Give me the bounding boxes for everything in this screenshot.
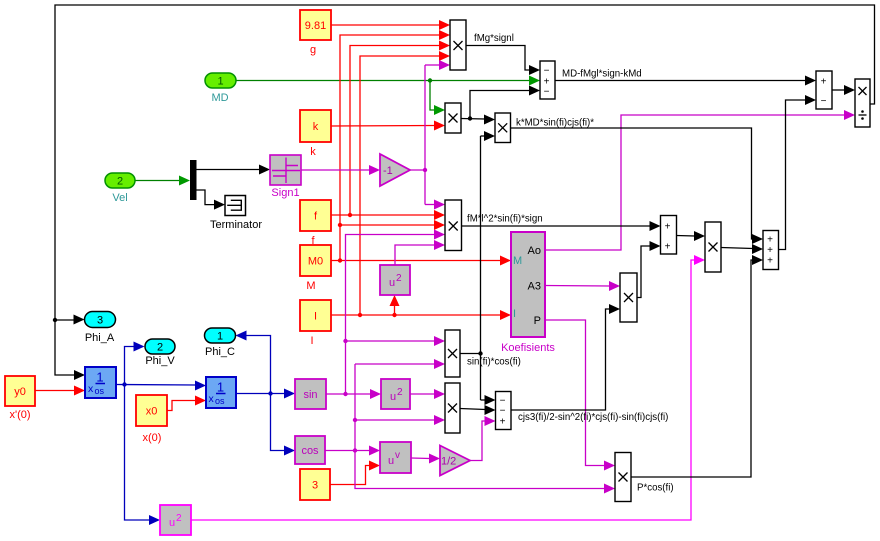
label I <box>310 335 313 347</box>
sum block sum5 <box>661 216 677 255</box>
label MD <box>211 92 228 104</box>
u^v block <box>380 442 411 473</box>
constant block 3 <box>300 469 330 500</box>
svg-text:2: 2 <box>117 176 123 188</box>
wire cos riser x355 up to product sincos input2 and down to Pcos product <box>353 364 605 489</box>
wire product6 output to sum7 input2 <box>721 244 763 254</box>
wire red riser x340 M0 signal up to product1 input2 <box>338 30 450 263</box>
product block fMl2 <box>445 200 462 251</box>
product block Pcos <box>615 453 631 502</box>
svg-text:g: g <box>310 44 316 56</box>
wire product3 output kMDsin down to sum7 input1 <box>511 128 764 244</box>
svg-text:9.81: 9.81 <box>305 20 326 32</box>
svg-text:x'(0): x'(0) <box>9 409 30 421</box>
svg-text:1: 1 <box>217 380 224 395</box>
wire Pcos output up to sum7 input3 <box>632 255 764 477</box>
integrator2 block <box>206 377 236 408</box>
svg-text:MD: MD <box>211 92 228 104</box>
sin block <box>295 379 326 409</box>
wire integrator1 branch up to Phi_V outport <box>125 342 145 385</box>
u2 mid block <box>381 379 410 409</box>
inport oval Vel <box>105 173 135 188</box>
label x'(0) <box>9 409 30 421</box>
wire sign signal to product1 input5 <box>425 60 450 70</box>
label k*MD*sin(fi)cjs(fi)* <box>516 118 594 129</box>
wire Sign1 magenta output to gain -1 <box>301 165 380 175</box>
wire I red to Koefisients I input <box>331 310 511 320</box>
svg-text:-1: -1 <box>383 165 393 177</box>
wire product5 output to sum cjs3 input2 <box>460 405 496 415</box>
u2 bottom block <box>160 505 191 535</box>
wire sin riser x345 up to product fM input4 <box>346 230 446 395</box>
svg-text:+: + <box>767 245 773 256</box>
wire red riser x350 f signal up to product1 input3 <box>348 41 450 218</box>
wire M0 red to Koefisients M input <box>331 256 511 266</box>
wire sum right output to divide block <box>832 85 855 95</box>
svg-text:x0: x0 <box>146 406 158 418</box>
svg-text:Koefisients: Koefisients <box>501 342 555 354</box>
wire red riser x360 I signal up to product1 input4 <box>358 51 450 317</box>
svg-text:x(0): x(0) <box>143 432 162 444</box>
svg-text:+: + <box>500 417 506 428</box>
svg-text:k: k <box>310 146 316 158</box>
svg-text:I: I <box>314 311 317 323</box>
constant block f <box>300 200 331 231</box>
wire MD green branch down to product2 <box>430 81 445 116</box>
wire product2 output to product3 <box>461 115 495 125</box>
wire integrator2 output to sin <box>236 389 295 399</box>
label Phi_V <box>145 355 175 367</box>
svg-text:cos: cos <box>301 445 319 457</box>
wire product1 output to sum MD block top input <box>466 46 540 76</box>
wire Vel green from inport 2 to demux <box>135 176 190 186</box>
constant block I <box>300 300 331 331</box>
svg-text:P*cos(fi): P*cos(fi) <box>637 483 674 494</box>
wire Koefisients Ao output to divide block <box>545 110 855 250</box>
wire sin branch to product sincos input1 <box>343 336 445 346</box>
svg-text:k*MD*sin(fi)cjs(fi)*: k*MD*sin(fi)cjs(fi)* <box>516 118 594 129</box>
sum block sum7 <box>763 231 779 270</box>
svg-text:os: os <box>215 396 225 406</box>
svg-text:3: 3 <box>312 480 318 492</box>
wire u2 mid output to product5 input1 <box>410 389 445 399</box>
sum block right <box>816 71 832 109</box>
svg-text:u: u <box>390 391 396 403</box>
svg-text:+: + <box>665 242 671 253</box>
svg-text:sin(fi)*cos(fi): sin(fi)*cos(fi) <box>467 357 521 368</box>
svg-text:1/2: 1/2 <box>441 456 456 468</box>
svg-text:2: 2 <box>396 273 402 284</box>
wire y0 red to integrator1 initial condition <box>35 386 85 396</box>
wire branch to Phi_A outport <box>53 315 85 325</box>
svg-text:2: 2 <box>176 513 182 524</box>
wire constant 3 red to u^v exponent input <box>330 461 380 485</box>
product block MD k <box>445 103 461 133</box>
svg-text:−: − <box>821 96 827 107</box>
wire integrator2 branch up to Phi_C outport <box>236 331 271 394</box>
wire k red to product2 input2 <box>331 121 445 131</box>
wire x0 red to integrator2 initial condition <box>167 396 206 411</box>
wire MD green from inport 1 to sum MD-fMgl <box>236 76 540 86</box>
label k <box>310 146 316 158</box>
wire integrator2 branch down to cos <box>271 394 296 456</box>
wire feedback loop from divide output around top and left into integrator1 <box>55 5 875 380</box>
u2 square block upper <box>380 265 410 295</box>
wire demux out1 to Sign1 <box>197 165 271 175</box>
product block sum5xV2 <box>705 222 721 272</box>
wire product sincos output riser x480 <box>460 136 483 400</box>
wire 9.81 red to product1 input1 <box>331 20 450 30</box>
inport oval MD <box>205 73 236 88</box>
svg-text:3: 3 <box>97 315 103 327</box>
svg-text:Vel: Vel <box>112 192 127 204</box>
product block u2cos <box>445 383 460 433</box>
svg-text:cjs3(fi)/2-sin^2(fi)*cjs(fi)-s: cjs3(fi)/2-sin^2(fi)*cjs(fi)-sin(fi)cjs(… <box>518 412 668 423</box>
svg-text:y0: y0 <box>14 386 26 398</box>
label cjs3 <box>518 412 668 423</box>
svg-text:1: 1 <box>96 370 103 385</box>
wire sign signal to product fM input1 <box>425 200 445 210</box>
svg-text:u: u <box>388 455 394 467</box>
svg-text:I: I <box>513 308 516 320</box>
Koefisients subsystem block <box>511 232 545 337</box>
svg-text:1: 1 <box>217 76 223 88</box>
label f <box>311 235 315 247</box>
svg-text:u: u <box>169 517 175 529</box>
constant block x0 <box>136 395 167 426</box>
label g <box>310 44 316 56</box>
product block sincos <box>445 330 460 377</box>
svg-text:MD-fMgl*sign-kMd: MD-fMgl*sign-kMd <box>562 69 642 80</box>
wire Koefisients A3 output to product4 <box>545 281 620 291</box>
svg-text:−: − <box>500 406 506 417</box>
label M <box>306 280 315 292</box>
demux bar <box>190 160 197 200</box>
svg-text:A3: A3 <box>528 281 541 293</box>
gain 1/2 triangle <box>440 446 470 476</box>
svg-text:sin: sin <box>303 389 317 401</box>
wire sincos signal down to sum cjs3 input1 <box>481 395 496 405</box>
product block fMg <box>450 20 466 70</box>
svg-text:Terminator: Terminator <box>210 219 262 231</box>
wire sum cjs3 output up to product4 input2 <box>511 304 620 410</box>
wire gain half output up to sum cjs3 plus input <box>470 416 496 461</box>
wire f red to product fM input2 <box>331 210 445 220</box>
svg-text:Phi_C: Phi_C <box>205 346 235 358</box>
svg-text:−: − <box>544 87 550 98</box>
svg-text:M: M <box>513 255 522 267</box>
wire u2 square output to product fM input5 <box>395 240 445 265</box>
wire sum7 output up to sum right minus input <box>779 95 817 250</box>
integrator1 block <box>85 367 116 398</box>
wire gain -1 output riser x425 sign signal <box>410 65 427 205</box>
cos block <box>295 436 325 464</box>
Sign1 block <box>270 155 301 185</box>
label fMg*signI <box>474 33 514 44</box>
wire red branch up into u2 square block <box>390 295 400 315</box>
label Sign1 <box>271 187 299 199</box>
constant block y0 <box>5 376 35 406</box>
outport oval Phi_C <box>205 328 236 343</box>
svg-text:fM*l^2*sin(fi)*sign: fM*l^2*sin(fi)*sign <box>467 214 543 225</box>
wire product4 output up to sum5 input2 <box>637 241 661 298</box>
label sin(fi)*cos(fi) <box>467 357 521 368</box>
svg-text:+: + <box>767 256 773 267</box>
svg-text:os: os <box>95 386 105 396</box>
svg-text:−: − <box>544 66 550 77</box>
svg-text:M: M <box>306 280 315 292</box>
wire integrator1 output to integrator2 <box>116 381 206 391</box>
divide block <box>855 79 870 127</box>
svg-text:+: + <box>767 235 773 246</box>
outport oval Phi_A <box>85 312 116 328</box>
svg-text:Phi_A: Phi_A <box>85 332 115 344</box>
wire cos output to u^v input1 <box>325 446 380 456</box>
svg-text:M0: M0 <box>308 256 323 268</box>
constant block 9.81 <box>300 10 331 40</box>
label x(0) <box>143 432 162 444</box>
svg-text:x: x <box>209 393 215 405</box>
label Vel <box>112 192 127 204</box>
svg-text:I: I <box>310 335 313 347</box>
label MD-fMgI*sign-kMd <box>562 69 642 80</box>
wire u2 bottom magenta long line up to product6 input2 <box>191 255 705 520</box>
svg-text:x: x <box>88 383 94 395</box>
svg-text:Sign1: Sign1 <box>271 187 299 199</box>
wire sin output to u2 mid <box>326 389 381 399</box>
svg-text:k: k <box>313 121 319 133</box>
wire cos branch to product5 input2 <box>355 415 445 425</box>
wire Koefisients P output down to Pcos product <box>545 320 615 471</box>
svg-text:2: 2 <box>397 387 403 398</box>
svg-text:v: v <box>395 450 400 461</box>
outport oval Phi_V <box>145 339 175 354</box>
label Phi_C <box>205 346 235 358</box>
label Phi_A <box>85 332 115 344</box>
label fM*l^2*sin(fi)*sign <box>467 214 543 225</box>
wire product2 branch up to sum MD bottom minus input <box>470 86 540 119</box>
svg-text:Phi_V: Phi_V <box>145 355 175 367</box>
product block kMDsincos <box>495 113 511 143</box>
wire sincos signal up to product3 input2 <box>481 131 496 141</box>
product block A3 <box>620 273 637 322</box>
svg-text:+: + <box>821 77 827 88</box>
svg-text:2: 2 <box>157 342 163 354</box>
svg-text:Ao: Ao <box>528 245 541 257</box>
wire integrator1 branch down to u2 bottom <box>125 385 161 526</box>
label Terminator <box>210 219 262 231</box>
svg-text:1: 1 <box>217 331 223 343</box>
wire u^v output to gain half <box>411 454 440 464</box>
wire red branch x340 to product fM input3 <box>338 220 445 230</box>
constant block M0 <box>300 245 331 276</box>
svg-text:P: P <box>534 315 541 327</box>
wire sum MD output long line to sum right input plus <box>555 76 816 86</box>
wire cos branch to product sincos input2 <box>355 359 445 369</box>
sum block cjs3 <box>496 392 512 430</box>
label P*cos(fi) <box>637 483 674 494</box>
wire product fM output to sum5 input1 <box>462 221 661 231</box>
svg-text:+: + <box>665 222 671 233</box>
label Koefisients <box>501 342 555 354</box>
gain -1 triangle <box>380 154 410 186</box>
wire sum5 output to product6 input1 <box>677 231 706 241</box>
sum block MD-fMgl <box>540 61 555 99</box>
svg-text:u: u <box>389 277 395 289</box>
terminator block <box>225 196 246 216</box>
wire demux out2 to Terminator <box>197 190 226 210</box>
constant block k <box>300 110 331 142</box>
svg-text:fMg*signl: fMg*signl <box>474 33 514 44</box>
